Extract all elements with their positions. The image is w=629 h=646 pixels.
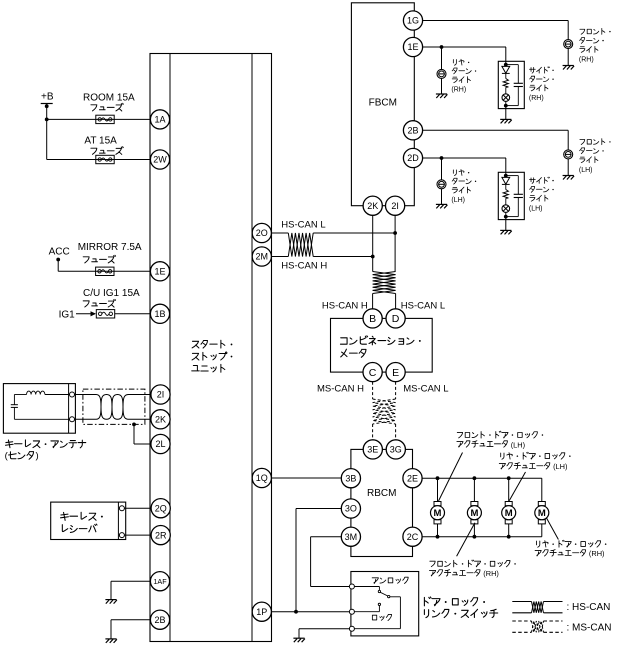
svg-text:B: B [369,313,376,325]
svg-text:2K: 2K [155,415,166,425]
svg-text:HS-CAN H: HS-CAN H [322,300,368,311]
svg-text:): ) [36,450,39,461]
svg-text:1E: 1E [407,42,418,52]
svg-text:ACC: ACC [49,247,70,258]
svg-text:1A: 1A [154,115,165,125]
svg-text:MS-CAN L: MS-CAN L [403,384,448,395]
svg-text:M: M [505,508,513,519]
svg-text:IG1: IG1 [59,309,76,320]
svg-text:(RH): (RH) [529,95,544,102]
svg-text:(LH): (LH) [451,197,465,204]
svg-text:HS-CAN H: HS-CAN H [281,261,327,272]
svg-text:2I: 2I [391,201,399,211]
svg-text:M: M [538,508,546,519]
svg-text:HS-CAN L: HS-CAN L [401,300,445,311]
svg-text:(RH): (RH) [589,549,605,558]
svg-text:1B: 1B [154,309,165,319]
svg-text:: HS-CAN: : HS-CAN [567,602,611,613]
svg-text:: MS-CAN: : MS-CAN [567,622,612,633]
svg-text:3O: 3O [345,504,357,514]
svg-text:AT 15A: AT 15A [84,135,117,146]
svg-text:C: C [369,367,377,379]
svg-text:2M: 2M [256,252,269,262]
svg-text:2D: 2D [407,153,419,163]
svg-text:2Q: 2Q [155,503,167,513]
svg-text:2I: 2I [157,390,165,400]
svg-text:+B: +B [41,92,54,103]
svg-text:2L: 2L [155,439,165,449]
svg-text:3B: 3B [345,473,356,483]
svg-text:FBCM: FBCM [369,97,397,108]
svg-text:2K: 2K [367,201,378,211]
svg-text:C/U IG1 15A: C/U IG1 15A [83,288,140,299]
svg-text:M: M [470,508,478,519]
svg-text:2C: 2C [407,532,419,542]
svg-text:MIRROR 7.5A: MIRROR 7.5A [78,242,142,253]
svg-text:(LH): (LH) [553,462,567,471]
svg-text:(RH): (RH) [451,87,466,94]
svg-text:(RH): (RH) [579,57,594,64]
svg-text:(LH): (LH) [529,206,543,213]
svg-text:3G: 3G [390,445,402,455]
svg-text:M: M [434,508,442,519]
svg-text:(LH): (LH) [511,440,525,449]
svg-text:1P: 1P [256,607,267,617]
svg-text:3E: 3E [367,445,378,455]
svg-text:ROOM 15A: ROOM 15A [83,93,135,104]
svg-text:2B: 2B [154,615,165,625]
svg-text:E: E [392,367,399,379]
svg-text:1Q: 1Q [256,473,268,483]
svg-text:RBCM: RBCM [367,488,396,499]
svg-text:1AF: 1AF [153,577,167,586]
svg-text:D: D [392,313,400,325]
svg-text:(LH): (LH) [579,167,593,174]
svg-text:2R: 2R [155,530,167,540]
svg-text:2B: 2B [407,126,418,136]
svg-text:2O: 2O [256,228,268,238]
svg-text:HS-CAN L: HS-CAN L [281,219,325,230]
svg-text:(RH): (RH) [483,569,499,578]
svg-text:1E: 1E [154,267,165,277]
svg-text:1G: 1G [407,16,419,26]
svg-text:2W: 2W [153,155,167,165]
svg-text:3M: 3M [345,532,358,542]
svg-text:2E: 2E [407,473,418,483]
svg-text:MS-CAN H: MS-CAN H [317,384,364,395]
